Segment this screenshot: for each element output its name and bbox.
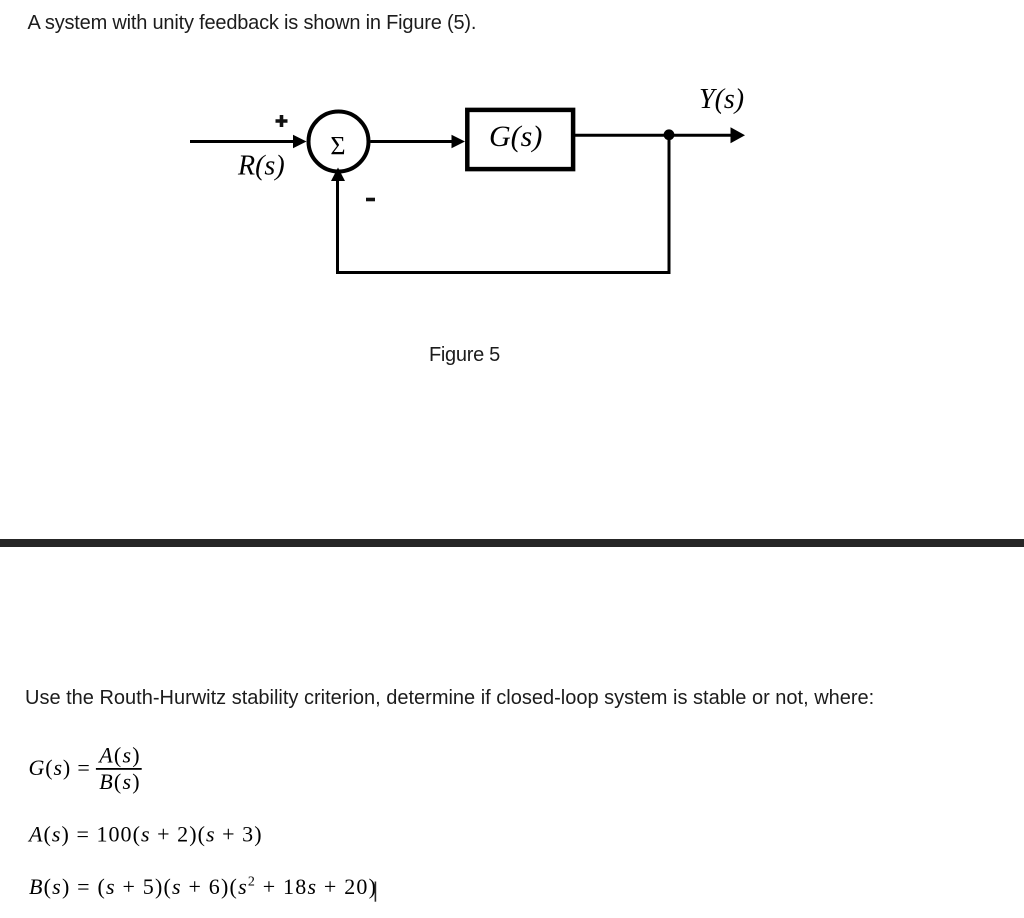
bottom paragraph <box>25 688 874 708</box>
svg-text:G(s) =: G(s) = <box>29 755 91 780</box>
wire: summing junction to G(s) block <box>371 135 466 148</box>
svg-text:R(s): R(s) <box>237 151 285 182</box>
wire: input line into summing junction <box>190 135 307 148</box>
summing junction (sigma) <box>309 112 369 172</box>
wire: G(s) output to branch node <box>575 134 669 137</box>
wire: feedback vertical from node <box>668 135 671 274</box>
page divider bar <box>0 539 1024 547</box>
wire: feedback vertical up into summing junction <box>331 168 345 275</box>
junction node (branch point) <box>664 129 675 140</box>
block G(s) <box>467 110 573 169</box>
minus sign label <box>366 198 375 202</box>
svg-text:B(s): B(s) <box>99 769 140 794</box>
svg-text:A(s) = 100(s + 2)(s + 3): A(s) = 100(s + 2)(s + 3) <box>27 822 263 847</box>
figure caption <box>429 345 500 365</box>
wire: feedback bottom horizontal <box>336 271 671 274</box>
wire: node to output arrow <box>669 127 745 143</box>
math: G(s) = A(s)/B(s) <box>29 742 142 794</box>
svg-text:B(s) = (s + 5)(s + 6)(s2 + 18s: B(s) = (s + 5)(s + 6)(s2 + 18s + 20) <box>29 874 377 899</box>
svg-text:G(s): G(s) <box>489 120 542 153</box>
plus sign label <box>276 115 288 127</box>
text caret cursor <box>375 882 377 902</box>
heading text <box>28 13 477 33</box>
svg-text:Y(s): Y(s) <box>699 84 744 115</box>
svg-text:A(s): A(s) <box>97 742 140 767</box>
svg-text:Σ: Σ <box>330 131 345 160</box>
